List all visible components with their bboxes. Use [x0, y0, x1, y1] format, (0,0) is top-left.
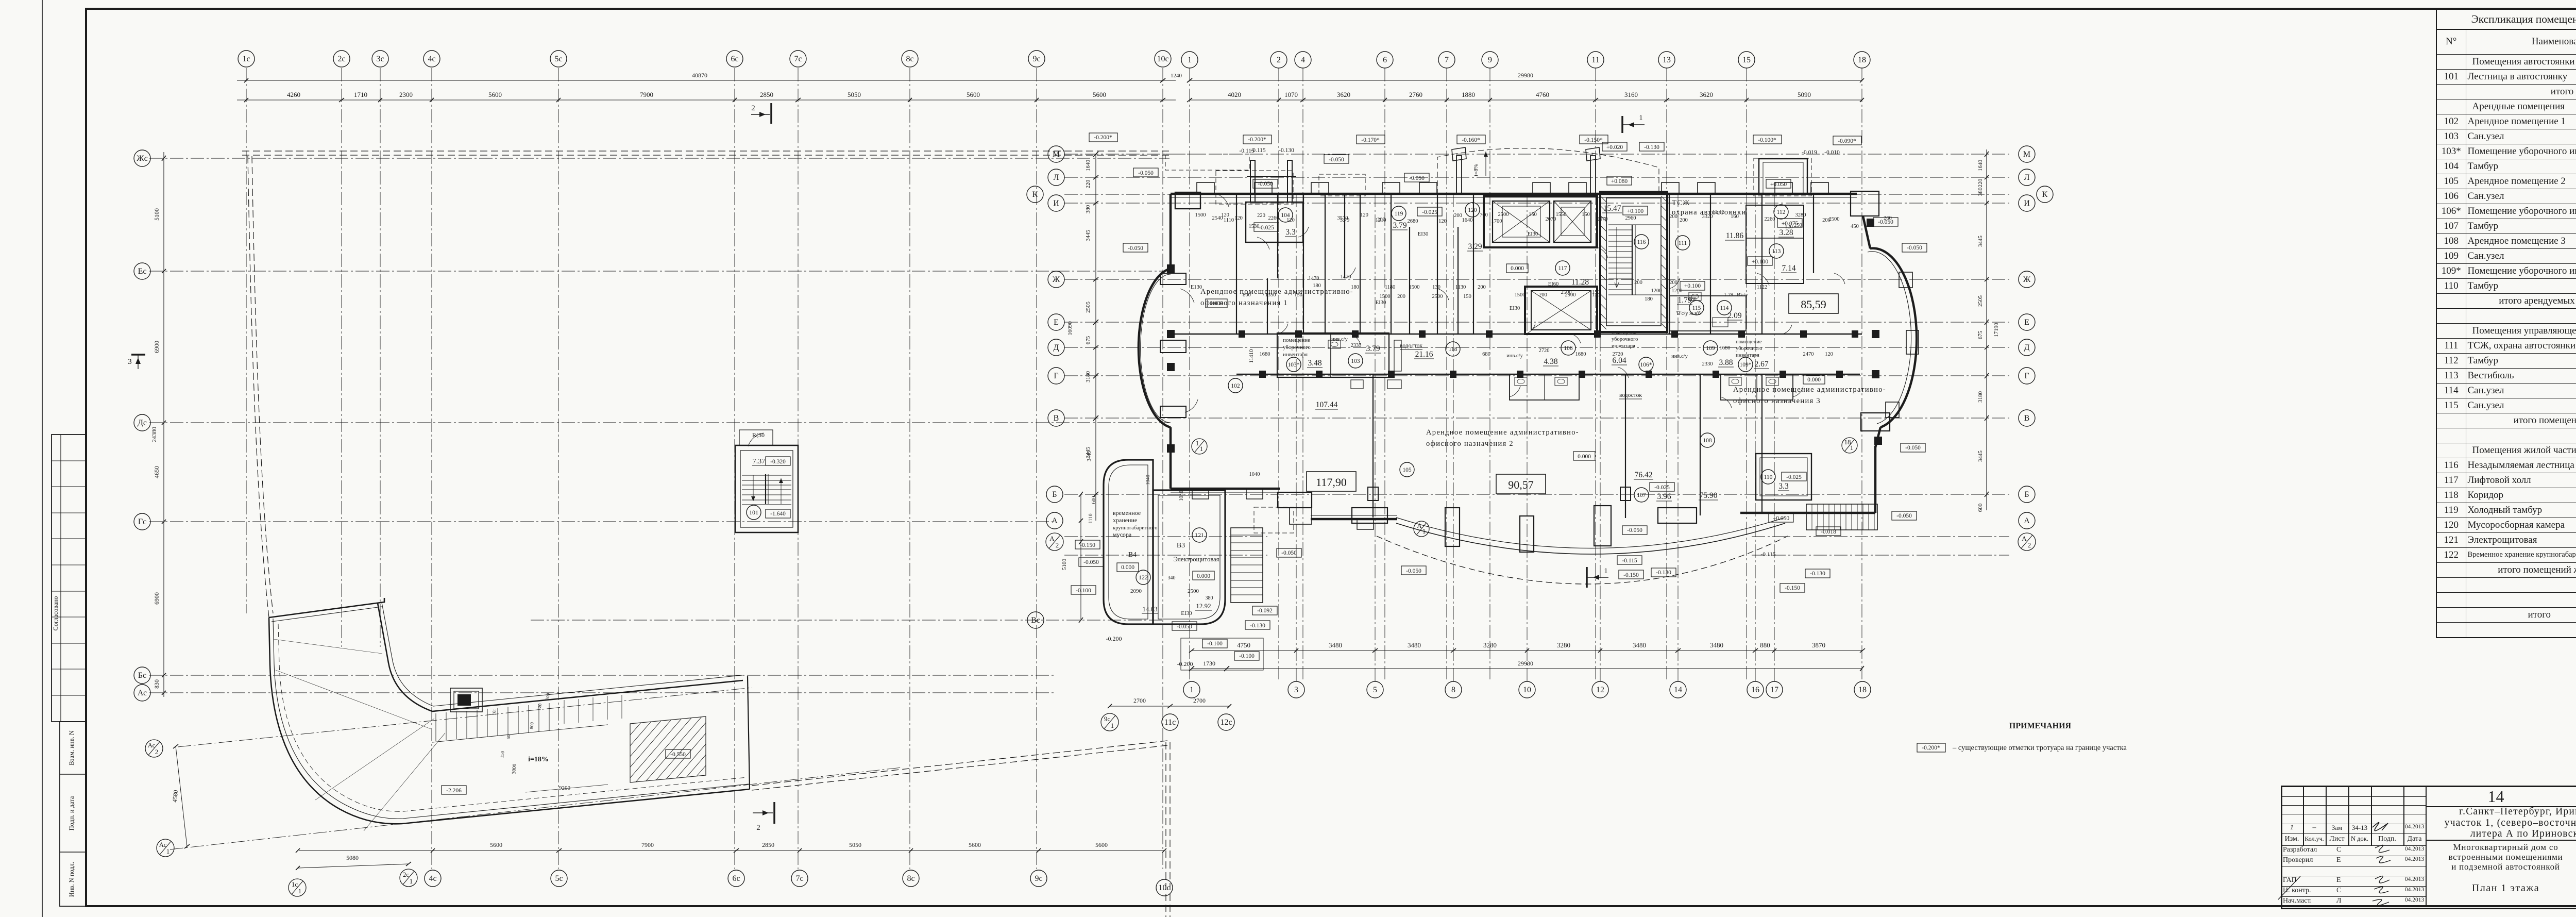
svg-text:340: 340 [1168, 575, 1176, 581]
svg-text:инв.с/у: инв.с/у [1331, 337, 1348, 342]
svg-text:-0.100: -0.100 [1239, 653, 1255, 659]
svg-text:3480: 3480 [1710, 641, 1723, 649]
svg-text:4760: 4760 [1536, 91, 1549, 98]
svg-text:-0.025: -0.025 [1259, 225, 1274, 231]
svg-text:5050: 5050 [848, 91, 861, 98]
svg-text:11: 11 [1591, 56, 1599, 64]
freestanding columns [1368, 487, 1378, 501]
svg-text:Б: Б [1052, 490, 1057, 499]
svg-text:-0.050: -0.050 [1406, 568, 1421, 574]
svg-text:-0.550: -0.550 [670, 752, 686, 758]
svg-text:мусора: мусора [1113, 531, 1132, 538]
svg-text:1: 1 [1188, 56, 1192, 64]
svg-text:1470: 1470 [1341, 274, 1351, 280]
svg-text:111: 111 [1679, 240, 1687, 246]
svg-text:117: 117 [1558, 265, 1567, 272]
svg-text:1040: 1040 [1179, 491, 1184, 501]
svg-text:1122: 1122 [1757, 285, 1768, 290]
svg-text:ПРИМЕЧАНИЯ: ПРИМЕЧАНИЯ [2009, 722, 2072, 730]
svg-text:-0.092: -0.092 [1257, 608, 1273, 614]
svg-text:120: 120 [1438, 219, 1447, 224]
svg-text:10t: 10t [492, 709, 497, 715]
svg-text:18: 18 [1858, 686, 1867, 694]
svg-text:180: 180 [1645, 296, 1653, 302]
svg-text:-0.100*: -0.100* [1758, 137, 1776, 143]
svg-text:-0.115: -0.115 [1760, 552, 1776, 558]
svg-text:-0.090*: -0.090* [1838, 138, 1856, 144]
svg-text:6900: 6900 [153, 341, 160, 353]
segment dimension line top [237, 99, 1176, 101]
svg-text:121: 121 [1195, 531, 1204, 539]
svg-text:4580: 4580 [171, 790, 179, 803]
svg-text:Л: Л [2024, 173, 2030, 182]
horizontal building axis lines [1064, 154, 2009, 155]
svg-text:2505: 2505 [1977, 295, 1984, 307]
svg-text:11410: 11410 [1248, 349, 1255, 363]
svg-text:-0.320: -0.320 [770, 459, 786, 465]
svg-text:113: 113 [1772, 248, 1781, 255]
svg-text:116: 116 [1637, 239, 1646, 245]
svg-text:130: 130 [1432, 285, 1440, 290]
svg-text:76.42: 76.42 [1635, 471, 1653, 479]
svg-text:250: 250 [1794, 223, 1802, 228]
svg-text:4с: 4с [428, 55, 435, 63]
svg-text:-0.100: -0.100 [1207, 641, 1223, 647]
svg-text:5600: 5600 [488, 91, 502, 98]
bottom numeric dimension lines [1192, 650, 1862, 651]
svg-text:-0.130: -0.130 [1250, 623, 1265, 629]
svg-text:101: 101 [749, 509, 758, 516]
svg-text:-0.050: -0.050 [1627, 527, 1642, 533]
svg-text:1500: 1500 [1409, 285, 1420, 290]
svg-text:-0.025: -0.025 [1654, 485, 1670, 491]
svg-text:М: М [2023, 150, 2030, 159]
svg-text:1640: 1640 [1085, 160, 1091, 172]
svg-text:1500: 1500 [1380, 294, 1391, 299]
svg-text:А: А [1052, 516, 1058, 525]
horizontal site axis lines [149, 158, 1170, 159]
svg-text:1: 1 [410, 877, 413, 885]
svg-text:1710: 1710 [354, 91, 367, 98]
svg-text:2330: 2330 [1702, 361, 1713, 367]
section mark 1 top [1621, 116, 1623, 133]
svg-text:3.3: 3.3 [1778, 482, 1789, 491]
svg-text:2720: 2720 [1539, 348, 1550, 354]
svg-text:В: В [2024, 414, 2030, 423]
svg-text:675: 675 [1977, 330, 1984, 339]
svg-text:3000: 3000 [511, 763, 517, 774]
svg-text:-0.200: -0.200 [1106, 635, 1122, 642]
svg-text:-0.100: -0.100 [1076, 588, 1091, 594]
svg-text:0.000: 0.000 [1807, 377, 1821, 383]
svg-text:2470: 2470 [1803, 352, 1814, 357]
svg-text:Г: Г [1054, 372, 1058, 380]
svg-text:2900: 2900 [1565, 292, 1576, 298]
svg-text:К: К [1032, 190, 1038, 199]
area boxes [1307, 472, 1356, 491]
svg-text:9с: 9с [1035, 874, 1042, 883]
schedule table Экспликация помещений [2436, 9, 2576, 638]
svg-text:9: 9 [1488, 56, 1492, 64]
svg-text:-0.130: -0.130 [1656, 570, 1671, 576]
left site dimension column [163, 152, 164, 697]
svg-text:3.48: 3.48 [1308, 359, 1321, 368]
svg-text:5100: 5100 [153, 208, 160, 221]
top axis circles [238, 51, 255, 67]
svg-text:120: 120 [1825, 352, 1833, 357]
svg-text:3480: 3480 [1633, 641, 1646, 649]
svg-text:200: 200 [1680, 218, 1688, 223]
svg-text:4750: 4750 [1237, 641, 1250, 649]
section mark 2 bottom [773, 802, 775, 824]
svg-text:0.000: 0.000 [1511, 265, 1524, 272]
svg-text:85,59: 85,59 [1801, 298, 1826, 311]
svg-text:160: 160 [1731, 214, 1739, 220]
svg-text:-0.025: -0.025 [1422, 209, 1437, 215]
svg-text:2500: 2500 [1498, 212, 1509, 218]
svg-text:7с: 7с [795, 874, 803, 883]
svg-text:-0.050: -0.050 [1258, 181, 1273, 187]
svg-text:i=8%: i=8% [1473, 164, 1479, 176]
inner left dimension column [1095, 154, 1096, 521]
svg-text:2760: 2760 [1409, 91, 1422, 98]
svg-text:180: 180 [1351, 285, 1359, 290]
interior partition walls [1171, 334, 1862, 335]
svg-text:6с: 6с [731, 55, 738, 63]
svg-text:ЕІ30: ЕІ30 [1528, 231, 1538, 237]
svg-text:2960: 2960 [1625, 215, 1636, 221]
stamp cells lower left [60, 722, 86, 906]
right dimension column [1986, 149, 1987, 510]
section mark 1 bottom [1586, 567, 1588, 588]
svg-text:В4: В4 [1128, 551, 1137, 559]
svg-text:офисного назначения 2: офисного назначения 2 [1426, 440, 1514, 448]
svg-text:120: 120 [1468, 207, 1477, 213]
svg-text:инвентаря: инвентаря [1283, 352, 1308, 358]
stamp table Согласовано [52, 435, 86, 722]
svg-text:0.000: 0.000 [1578, 454, 1591, 460]
svg-text:8: 8 [1451, 686, 1455, 694]
svg-text:Б: Б [2024, 490, 2029, 499]
svg-text:4.38: 4.38 [1544, 357, 1557, 366]
svg-text:1530: 1530 [1249, 224, 1260, 229]
svg-text:-0.170*: -0.170* [1361, 137, 1380, 143]
svg-text:103: 103 [1351, 358, 1360, 364]
svg-text:1.79: 1.79 [1724, 292, 1733, 298]
svg-text:200: 200 [1634, 280, 1642, 286]
svg-text:380: 380 [1206, 595, 1213, 601]
svg-text:Е: Е [1054, 318, 1059, 327]
svg-text:5600: 5600 [1093, 91, 1106, 98]
svg-text:200: 200 [1397, 294, 1405, 299]
svg-text:5600: 5600 [969, 841, 981, 848]
svg-text:-0.130: -0.130 [1644, 144, 1659, 151]
svg-text:1: 1 [166, 847, 170, 855]
svg-text:-0.130: -0.130 [1279, 147, 1294, 154]
svg-text:1040: 1040 [1249, 472, 1260, 477]
svg-text:14: 14 [1674, 686, 1682, 694]
svg-text:В3: В3 [1177, 542, 1185, 549]
svg-text:15: 15 [1742, 56, 1751, 64]
svg-text:1550: 1550 [1556, 212, 1567, 218]
svg-text:1350: 1350 [1265, 292, 1276, 298]
svg-text:офисного назначения 3: офисного назначения 3 [1733, 397, 1821, 405]
svg-text:150: 150 [1529, 212, 1537, 218]
section mark 2 top [770, 103, 772, 124]
svg-text:260: 260 [1884, 215, 1892, 221]
svg-text:2335: 2335 [1351, 343, 1362, 348]
parking ramp [269, 598, 384, 618]
svg-text:Электрощитовая: Электрощитовая [1174, 556, 1219, 563]
svg-text:110: 110 [1764, 474, 1773, 480]
svg-text:А: А [1049, 535, 1055, 542]
svg-text:2с: 2с [337, 55, 345, 63]
svg-text:5100: 5100 [1061, 559, 1067, 571]
svg-text:-0.150*: -0.150* [1584, 137, 1603, 143]
svg-text:5с: 5с [554, 55, 562, 63]
svg-text:i=18%: i=18% [528, 756, 549, 763]
svg-text:+0.050: +0.050 [1770, 181, 1787, 188]
svg-text:600: 600 [1091, 496, 1097, 504]
svg-text:ЕІ30: ЕІ30 [1510, 306, 1520, 311]
svg-text:-0.200*: -0.200* [1248, 137, 1266, 143]
svg-text:К: К [2042, 190, 2048, 199]
svg-text:13: 13 [1663, 56, 1671, 64]
svg-text:уборочного: уборочного [1612, 337, 1638, 342]
svg-text:108: 108 [1703, 438, 1712, 444]
svg-text:2500: 2500 [1432, 294, 1443, 299]
svg-text:3180: 3180 [1085, 371, 1091, 383]
svg-text:2с: 2с [403, 871, 410, 878]
svg-text:-2.206: -2.206 [446, 788, 462, 794]
svg-text:ЕІ30: ЕІ30 [1376, 300, 1386, 306]
svg-text:5080: 5080 [346, 854, 359, 861]
svg-text:2: 2 [1277, 56, 1281, 64]
svg-text:Ас: Ас [159, 841, 167, 848]
svg-text:600: 600 [1977, 503, 1984, 512]
svg-text:7900: 7900 [640, 91, 653, 98]
svg-text:2720: 2720 [1613, 352, 1623, 357]
svg-text:5600: 5600 [1095, 841, 1108, 848]
svg-text:-0.150: -0.150 [1623, 572, 1639, 578]
vertical axis lines c-series [246, 68, 247, 613]
svg-text:2070: 2070 [1597, 216, 1608, 222]
svg-text:118: 118 [1449, 346, 1458, 353]
svg-text:-0.050: -0.050 [1409, 175, 1425, 181]
svg-text:инв.с/у: инв.с/у [1506, 353, 1523, 359]
svg-text:1200: 1200 [1651, 288, 1662, 294]
svg-text:-0.115: -0.115 [1239, 148, 1255, 154]
svg-text:2850: 2850 [760, 91, 773, 98]
svg-text:1200: 1200 [1672, 288, 1683, 294]
svg-text:1470: 1470 [1309, 276, 1319, 281]
svg-text:-0.050: -0.050 [1905, 445, 1921, 451]
svg-text:-0.150: -0.150 [1080, 542, 1095, 548]
svg-text:220: 220 [1257, 213, 1265, 219]
svg-text:1: 1 [1196, 439, 1199, 447]
bottom c dimension lines [299, 850, 1164, 851]
svg-text:16090: 16090 [1067, 321, 1073, 336]
svg-text:150: 150 [1463, 294, 1471, 299]
svg-text:12: 12 [1596, 686, 1604, 694]
svg-text:2850: 2850 [762, 841, 774, 848]
svg-text:106*: 106* [1640, 362, 1652, 368]
svg-text:1500: 1500 [1195, 212, 1206, 218]
svg-text:1: 1 [1111, 722, 1114, 729]
svg-text:-0.200*: -0.200* [1922, 745, 1940, 751]
svg-text:инвентаря: инвентаря [1736, 353, 1759, 358]
svg-text:Ж: Ж [2023, 275, 2031, 284]
svg-text:880: 880 [1760, 641, 1770, 649]
svg-text:11.28: 11.28 [1571, 278, 1589, 287]
svg-text:10с: 10с [1158, 883, 1170, 892]
svg-text:12с: 12с [1220, 718, 1232, 727]
svg-text:14.63: 14.63 [1142, 605, 1157, 613]
svg-text:-0.018: -0.018 [1821, 529, 1836, 535]
svg-text:4260: 4260 [287, 91, 300, 98]
svg-text:150: 150 [1582, 212, 1590, 218]
svg-text:40870: 40870 [692, 72, 707, 79]
svg-text:2680: 2680 [1408, 219, 1418, 224]
vertical axis lines numeric [1189, 68, 1190, 681]
svg-text:8с: 8с [907, 874, 914, 883]
svg-text:E130: E130 [1191, 285, 1202, 290]
svg-text:помещение: помещение [1612, 330, 1638, 336]
site boundary dashed [242, 151, 1169, 152]
svg-text:А: А [1417, 522, 1422, 529]
svg-text:6.04: 6.04 [1612, 356, 1626, 365]
svg-text:-0.050: -0.050 [1128, 245, 1143, 252]
svg-text:3160: 3160 [1624, 91, 1638, 98]
svg-text:10с: 10с [1157, 55, 1168, 63]
svg-text:200: 200 [1478, 285, 1486, 290]
svg-text:-0.050: -0.050 [1907, 245, 1922, 251]
svg-text:103*: 103* [1288, 362, 1300, 368]
svg-text:75.90: 75.90 [1700, 491, 1718, 500]
svg-text:уборочного: уборочного [1283, 344, 1311, 351]
svg-text:2260: 2260 [1268, 215, 1279, 221]
svg-text:3.3: 3.3 [1285, 228, 1296, 237]
svg-text:1: 1 [298, 887, 302, 895]
svg-text:0.000: 0.000 [1210, 301, 1223, 307]
svg-text:105: 105 [1402, 467, 1412, 473]
svg-text:2505: 2505 [1085, 302, 1091, 313]
svg-text:3.79: 3.79 [1340, 218, 1349, 223]
svg-text:1680: 1680 [1575, 352, 1586, 357]
svg-text:18: 18 [1858, 56, 1866, 64]
svg-text:106: 106 [1564, 345, 1573, 352]
svg-text:102: 102 [1231, 383, 1240, 389]
svg-text:3.96: 3.96 [1657, 492, 1671, 501]
canopy dashed outlines top [1216, 171, 1293, 204]
building left facade [1170, 194, 1172, 269]
svg-text:1: 1 [1422, 527, 1426, 535]
svg-text:1210: 1210 [1376, 218, 1386, 223]
svg-text:1: 1 [1200, 445, 1204, 453]
svg-text:150: 150 [1294, 292, 1302, 298]
svg-text:120: 120 [1785, 224, 1793, 230]
svg-text:0.000: 0.000 [1121, 564, 1134, 571]
svg-text:4020: 4020 [1228, 91, 1241, 98]
section mark 3 left [131, 354, 145, 356]
svg-text:450: 450 [1851, 224, 1859, 229]
svg-text:инвентаря: инвентаря [1612, 343, 1635, 349]
svg-text:Подп. и дата: Подп. и дата [68, 796, 75, 830]
svg-text:-0.150: -0.150 [1785, 585, 1800, 591]
svg-text:крупногабаритного: крупногабаритного [1113, 525, 1158, 531]
svg-text:114: 114 [1720, 305, 1729, 311]
svg-text:120: 120 [1234, 215, 1243, 221]
svg-text:675: 675 [1085, 336, 1091, 344]
svg-text:R(30: R(30 [752, 431, 765, 439]
svg-text:-0.130: -0.130 [1810, 571, 1825, 577]
svg-text:7с: 7с [794, 55, 802, 63]
svg-text:И: И [2024, 199, 2030, 208]
svg-text:-0.050: -0.050 [1896, 513, 1912, 519]
svg-text:6: 6 [1383, 56, 1387, 64]
svg-text:11с: 11с [1164, 718, 1176, 727]
svg-text:3620: 3620 [1337, 91, 1350, 98]
svg-text:-0.019: -0.019 [1802, 149, 1817, 156]
svg-text:1700: 1700 [1492, 219, 1502, 224]
svg-text:4: 4 [1301, 56, 1305, 64]
svg-text:А: А [2022, 535, 2027, 542]
svg-text:-0.050: -0.050 [1329, 157, 1344, 163]
svg-text:112: 112 [1777, 209, 1786, 215]
svg-text:109: 109 [1706, 345, 1715, 352]
svg-text:1680: 1680 [1720, 345, 1731, 351]
svg-text:1070: 1070 [1284, 91, 1298, 98]
overall dimension line top [237, 80, 1176, 81]
svg-text:3870: 3870 [1812, 641, 1825, 649]
svg-text:3280: 3280 [1795, 212, 1806, 218]
svg-text:700: 700 [1480, 212, 1488, 218]
building bottom walls [1171, 488, 1280, 490]
svg-text:2700: 2700 [1133, 697, 1146, 704]
svg-text:Согласовано: Согласовано [52, 596, 59, 631]
svg-text:2: 2 [751, 104, 755, 112]
elevator shafts [1484, 196, 1597, 247]
svg-text:2700: 2700 [1193, 697, 1206, 704]
svg-text:1040: 1040 [1145, 475, 1151, 485]
svg-text:1500: 1500 [1515, 292, 1526, 298]
svg-text:временное: временное [1113, 509, 1141, 516]
svg-text:7.14: 7.14 [1782, 264, 1795, 273]
svg-text:120: 120 [536, 703, 543, 711]
svg-text:Гс: Гс [138, 518, 146, 526]
svg-text:-0.115: -0.115 [1622, 558, 1637, 564]
svg-text:Л: Л [1054, 173, 1059, 182]
svg-text:+0.100: +0.100 [1752, 259, 1769, 265]
svg-text:Ж: Ж [1053, 275, 1060, 284]
svg-text:16: 16 [1751, 686, 1759, 694]
svg-text:10: 10 [1523, 686, 1531, 694]
svg-text:5090: 5090 [1798, 91, 1811, 98]
svg-text:2: 2 [756, 824, 760, 832]
svg-text:Бс: Бс [138, 671, 146, 680]
svg-text:4с: 4с [429, 874, 436, 883]
svg-text:800: 800 [529, 722, 535, 729]
svg-text:8с: 8с [906, 55, 913, 63]
svg-text:+0.020: +0.020 [1606, 144, 1623, 151]
svg-text:60: 60 [506, 734, 512, 739]
building top wall [1171, 193, 1857, 195]
svg-text:Д: Д [2024, 343, 2030, 352]
svg-text:1: 1 [1639, 114, 1643, 122]
svg-text:-0.050: -0.050 [1138, 170, 1154, 176]
room number circles [1228, 378, 1243, 393]
svg-text:830: 830 [153, 679, 160, 689]
